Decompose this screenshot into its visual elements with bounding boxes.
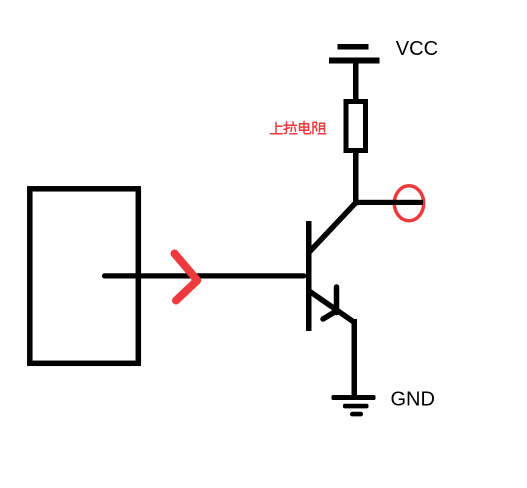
svg-text:VCC: VCC [396,38,438,60]
svg-text:GND: GND [391,389,435,411]
